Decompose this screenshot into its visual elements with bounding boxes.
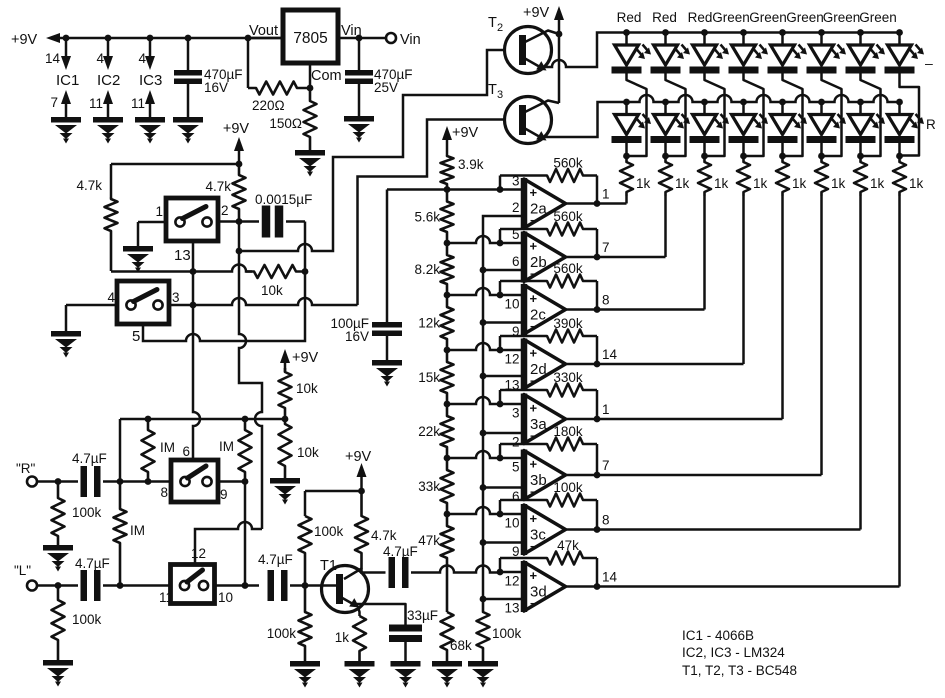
ground 1k T1	[345, 661, 375, 688]
svg-text:100k: 100k	[553, 480, 583, 495]
T3 emitter wire to LED rail 2	[545, 102, 627, 137]
svg-text:5.6k: 5.6k	[414, 209, 440, 224]
svg-text:4.7k: 4.7k	[371, 528, 397, 543]
LED row1 column 7 Green	[846, 33, 886, 74]
svg-text:4: 4	[96, 51, 104, 66]
op-amp 3d	[524, 561, 566, 612]
ground 100k L	[43, 660, 73, 687]
svg-text:100k: 100k	[267, 626, 297, 641]
svg-text:100k: 100k	[492, 626, 522, 641]
pin label 12 op-amp 2d	[504, 352, 519, 367]
resistor 1M left	[142, 419, 176, 482]
resistor 100k R input	[52, 482, 102, 546]
svg-text:+: +	[530, 511, 538, 526]
svg-text:+: +	[530, 185, 538, 200]
wire LED rail row 1	[623, 29, 903, 36]
svg-text:IM: IM	[219, 439, 234, 454]
wire ladder tap to op-amp 2b + input	[447, 236, 524, 246]
wire 10k feedback line	[111, 265, 252, 275]
wire pin12 control	[195, 522, 262, 565]
wire 7805 Vout to rail	[248, 37, 283, 40]
svg-text:−: −	[530, 429, 537, 443]
svg-text:33µF: 33µF	[407, 608, 438, 623]
resistor 1k column 6	[815, 156, 846, 196]
svg-text:6: 6	[512, 489, 520, 504]
svg-text:−: −	[530, 374, 537, 388]
wire output op-amp 2d pin 14	[566, 347, 744, 367]
node +9V ladder	[442, 125, 479, 155]
svg-text:2: 2	[497, 22, 503, 34]
ground 68k	[432, 661, 462, 688]
svg-text:13: 13	[504, 601, 519, 616]
svg-text:−: −	[530, 540, 537, 554]
T2 collector wire	[525, 31, 559, 43]
wire pin13 to pin6 control	[193, 241, 200, 460]
svg-text:7: 7	[602, 458, 610, 473]
resistor 100k bus	[477, 599, 522, 661]
svg-text:+: +	[530, 401, 538, 416]
wire ladder tap to op-amp 3c + input	[447, 507, 524, 517]
svg-text:12: 12	[504, 352, 519, 367]
wire output op-amp 3c pin 8	[566, 513, 861, 533]
wire output op-amp 2a pin 1	[566, 187, 627, 207]
LED row2 column 6	[807, 102, 847, 159]
feedback resistor 330k op-amp 3a	[500, 370, 597, 419]
svg-text:–: –	[925, 55, 933, 71]
op-amp 3b	[524, 450, 566, 501]
wire Vout branch	[247, 38, 250, 88]
wire output op-amp 2b pin 7	[566, 240, 666, 260]
wire pin3 line	[169, 298, 358, 308]
resistor 3.9k	[441, 155, 484, 190]
resistor 100k T1 upper bias	[299, 516, 344, 586]
svg-text:16V: 16V	[345, 329, 369, 344]
svg-text:4.7µF: 4.7µF	[258, 552, 293, 567]
resistor 8.2k ladder	[414, 243, 453, 295]
IC1 pin 14 supply arrow	[45, 38, 71, 70]
svg-text:IM: IM	[160, 440, 175, 455]
svg-text:100k: 100k	[72, 505, 102, 520]
svg-text:IC1 - 4066B: IC1 - 4066B	[682, 628, 754, 643]
label LED column 8 Green	[859, 10, 897, 25]
feedback resistor 390k op-amp 2d	[500, 316, 597, 364]
LED row2 column 7	[846, 102, 886, 159]
IC1 pin 7 ground arrow	[50, 90, 71, 117]
ground C1	[173, 117, 203, 144]
ground IC3	[135, 117, 165, 144]
svg-text:560k: 560k	[553, 209, 583, 224]
capacitor 4.7uF L input	[75, 556, 110, 601]
svg-text:8: 8	[602, 293, 610, 308]
op-amp 3c	[524, 504, 566, 555]
feedback resistor 100k op-amp 3c	[500, 480, 597, 530]
svg-text:2: 2	[512, 200, 520, 215]
pin label 10 op-amp 3c	[504, 516, 519, 531]
svg-text:10k: 10k	[261, 283, 283, 298]
wire 7805 Vin to terminal	[338, 35, 386, 42]
svg-text:3: 3	[512, 406, 520, 421]
wire ladder tap to op-amp 2d + input	[447, 343, 524, 353]
svg-text:33k: 33k	[418, 479, 440, 494]
wire LED row1 col3 cathode jog	[705, 74, 725, 157]
IC2 label	[97, 72, 120, 89]
svg-text:8: 8	[602, 513, 610, 528]
wire pin5 control line	[143, 272, 305, 341]
wire T1 collector to output cap	[362, 571, 386, 574]
LED row2 column 8	[885, 102, 925, 159]
capacitor C2 470uF 25V	[345, 38, 413, 116]
wire pin2 node	[218, 218, 259, 225]
svg-text:390k: 390k	[553, 316, 583, 331]
wire supply to 4.7k left	[111, 161, 242, 197]
wire ladder tap to op-amp 3b + input	[447, 451, 524, 461]
svg-text:4.7µF: 4.7µF	[383, 544, 418, 559]
wire LED row1 col7 cathode jog	[861, 74, 881, 157]
feedback resistor 47k op-amp 3d	[500, 538, 597, 587]
wire L cap to switch pin 11	[103, 582, 171, 589]
svg-text:5: 5	[512, 460, 520, 475]
svg-text:Red: Red	[617, 10, 642, 25]
LED row1 column 4 Green	[729, 33, 769, 74]
svg-text:100k: 100k	[72, 612, 102, 627]
wire pin9 to 1M right	[218, 478, 248, 485]
pin label 6 op-amp 3b	[512, 489, 520, 504]
capacitor 4.7uF R input	[72, 451, 107, 497]
resistor 1k column 4	[737, 156, 768, 196]
resistor 1k column 3	[698, 156, 729, 196]
svg-text:1k: 1k	[792, 176, 807, 191]
pin label 9 op-amp 2c	[512, 324, 520, 339]
svg-text:−: −	[530, 320, 537, 334]
wire column 4 to comparator output	[742, 196, 745, 364]
svg-text:1: 1	[602, 187, 610, 202]
T2 emitter wire to LED rail 1	[545, 33, 627, 68]
ground 10k bias	[270, 478, 300, 505]
svg-text:T: T	[488, 82, 497, 98]
svg-text:−: −	[530, 597, 537, 611]
svg-text:+: +	[530, 457, 538, 472]
svg-text:10: 10	[504, 516, 519, 531]
svg-text:4: 4	[107, 290, 115, 305]
wire pin4 to ground	[66, 305, 117, 331]
svg-text:13: 13	[174, 247, 191, 264]
label LED column 3 Red	[688, 10, 713, 25]
resistor 12k ladder	[418, 295, 453, 350]
wire pin3 node to T3 base	[358, 120, 505, 306]
svg-text:+9V: +9V	[523, 5, 550, 21]
svg-text:4.7k: 4.7k	[76, 178, 102, 193]
svg-text:Red: Red	[652, 10, 677, 25]
pin label 6 op-amp 2b	[512, 254, 520, 269]
wire LED row1 col4 cathode jog	[744, 74, 764, 157]
transistor T2	[488, 15, 552, 74]
regulator 7805	[249, 10, 362, 84]
ground 100k bus	[468, 661, 498, 688]
svg-text:+: +	[530, 346, 538, 361]
resistor 220R	[248, 82, 310, 114]
LED row1 column 8 Green	[885, 33, 925, 74]
wire signal line to op-amp 3d + input	[411, 566, 524, 576]
svg-text:IM: IM	[130, 523, 145, 538]
transistor T3	[488, 82, 552, 144]
wire L input line	[37, 582, 78, 589]
svg-text:560k: 560k	[553, 261, 583, 276]
svg-text:Green: Green	[786, 10, 824, 25]
resistor 4.7k left	[76, 178, 117, 271]
svg-text:1k: 1k	[714, 176, 729, 191]
wire column 7 to comparator output	[859, 196, 862, 530]
node +9V oscillator	[223, 121, 250, 164]
svg-text:+9V: +9V	[452, 125, 479, 141]
resistor 33k ladder	[418, 458, 453, 514]
svg-text:220Ω: 220Ω	[252, 98, 285, 113]
wire R cap to switch pin 8	[103, 478, 171, 485]
wire LED row1 col5 cathode jog	[783, 74, 803, 157]
svg-text:7: 7	[50, 95, 58, 110]
svg-text:Green: Green	[712, 10, 750, 25]
ground 100k T1	[290, 661, 320, 688]
pin label 13 op-amp 2d	[504, 378, 519, 393]
pin label 3 op-amp 2a	[512, 174, 520, 189]
wire comparator minus bus	[480, 216, 524, 602]
IC2 pin 4 supply arrow	[96, 38, 113, 70]
ground C2	[344, 116, 374, 143]
svg-text:4.7µF: 4.7µF	[72, 451, 107, 466]
wire output op-amp 3b pin 7	[566, 458, 822, 478]
LED row2 column 5	[768, 102, 808, 159]
svg-text:+9V: +9V	[223, 121, 250, 137]
label LED column 6 Green	[786, 10, 824, 25]
svg-text:3.9k: 3.9k	[458, 157, 484, 172]
pin label 5 op-amp 3b	[512, 460, 520, 475]
label minus right edge	[925, 55, 933, 71]
svg-text:25V: 25V	[374, 80, 398, 95]
svg-text:+: +	[530, 291, 538, 306]
ground IC2	[93, 117, 123, 144]
svg-text:0.0015µF: 0.0015µF	[255, 192, 312, 207]
wire 7805 Com	[307, 63, 314, 91]
switch IC1a pins 1 2 13	[155, 198, 228, 264]
resistor 1k column 5	[776, 156, 807, 196]
svg-text:Green: Green	[823, 10, 861, 25]
svg-text:100k: 100k	[314, 524, 344, 539]
resistor 1k column 1	[620, 156, 651, 196]
wire column 6 to comparator output	[820, 196, 823, 475]
wire oscillator control vertical	[236, 222, 262, 530]
resistor 1k column 2	[659, 156, 690, 196]
wire LED row1 col2 cathode jog	[666, 74, 686, 157]
svg-text:10: 10	[504, 297, 519, 312]
LED row2 column 1	[612, 102, 652, 159]
svg-text:47k: 47k	[557, 538, 579, 553]
capacitor 4.7uF L coupling	[258, 552, 293, 601]
svg-text:T: T	[488, 15, 497, 31]
node +9V bias divider	[280, 349, 319, 372]
svg-text:11: 11	[159, 590, 173, 605]
svg-text:"R": "R"	[16, 461, 36, 476]
svg-text:3: 3	[172, 290, 180, 305]
IC3 pin 4 supply arrow	[138, 38, 155, 70]
resistor 68k	[441, 612, 473, 661]
svg-text:4.7µF: 4.7µF	[75, 556, 110, 571]
svg-text:5: 5	[132, 328, 140, 345]
wire output op-amp 3a pin 1	[566, 402, 783, 422]
svg-text:Vin: Vin	[400, 32, 421, 48]
wire cap to T1 base	[290, 582, 337, 589]
wire +9V to T3 collector	[558, 34, 561, 103]
resistor 22k ladder	[418, 404, 453, 458]
pin label 2 op-amp 3a	[512, 435, 520, 450]
svg-text:180k: 180k	[553, 424, 583, 439]
svg-text:1k: 1k	[335, 630, 350, 645]
svg-text:11: 11	[89, 96, 103, 111]
svg-text:1k: 1k	[909, 176, 924, 191]
svg-text:4: 4	[138, 51, 146, 66]
switch IC1b pins 4 3 5	[107, 281, 179, 345]
resistor 150R	[269, 88, 316, 150]
wire R input line	[37, 478, 78, 485]
wire LED rail row 2	[623, 95, 903, 105]
svg-text:22k: 22k	[418, 424, 440, 439]
resistor 15k ladder	[418, 350, 453, 404]
resistor 4.7k oscillator	[205, 164, 245, 222]
resistor 1k T1	[335, 616, 366, 661]
wire column 5 to comparator output	[781, 196, 784, 419]
op-amp 2d	[524, 339, 566, 390]
note T1 T2 T3 BC548	[682, 663, 797, 678]
svg-text:IC1: IC1	[56, 72, 79, 89]
op-amp 2a	[524, 178, 566, 229]
T1 emitter arrow	[342, 598, 360, 608]
wire LED row1 col1 cathode jog	[627, 74, 647, 157]
svg-text:330k: 330k	[553, 370, 583, 385]
svg-text:1k: 1k	[675, 176, 690, 191]
pin label 10 op-amp 2c	[504, 297, 519, 312]
wire pin9 node down to L line	[242, 482, 249, 589]
resistor 100k L input	[52, 586, 102, 661]
svg-text:11: 11	[131, 96, 145, 111]
IC1 label	[56, 72, 79, 89]
svg-text:10: 10	[218, 590, 233, 605]
IC3 pin 11 ground arrow	[131, 90, 155, 117]
svg-text:8: 8	[160, 485, 168, 500]
LED row2 column 3	[690, 102, 730, 159]
wire output op-amp 2c pin 8	[566, 293, 705, 313]
svg-text:7805: 7805	[293, 30, 327, 47]
wire LED row1 col6 cathode jog	[822, 74, 842, 157]
svg-text:68k: 68k	[450, 638, 472, 653]
svg-text:"L": "L"	[14, 563, 31, 578]
svg-text:14: 14	[45, 51, 61, 66]
svg-text:1k: 1k	[636, 176, 651, 191]
capacitor 100uF 16V	[330, 190, 402, 361]
terminal Vin	[386, 32, 421, 48]
svg-text:IC2, IC3 - LM324: IC2, IC3 - LM324	[682, 645, 785, 660]
resistor 10k lower bias	[279, 419, 320, 478]
wire LED row1 col8 cathode jog	[900, 74, 920, 158]
svg-text:10k: 10k	[297, 445, 319, 460]
ground pin1	[123, 246, 153, 273]
feedback resistor 560k op-amp 2c	[500, 261, 597, 310]
note IC2 IC3 LM324	[682, 645, 785, 660]
svg-text:−: −	[530, 267, 537, 281]
transistor T1	[320, 558, 369, 613]
svg-text:Red: Red	[688, 10, 713, 25]
pin label 13 op-amp 3d	[504, 601, 519, 616]
svg-text:+9V: +9V	[345, 449, 372, 465]
wire T1 emitter	[358, 607, 360, 616]
junction dots ladder	[444, 186, 451, 517]
wire supply to 100k bias	[305, 491, 362, 516]
ground pin4	[51, 331, 81, 358]
capacitor 0.0015uF	[255, 192, 312, 238]
svg-text:+9V: +9V	[11, 32, 38, 48]
svg-text:+: +	[530, 568, 538, 583]
svg-text:IC2: IC2	[97, 72, 120, 89]
svg-text:Com: Com	[311, 68, 342, 84]
svg-text:16V: 16V	[204, 80, 228, 95]
junction dots on +9V rail	[63, 35, 252, 42]
svg-text:2: 2	[512, 435, 520, 450]
svg-text:12: 12	[504, 574, 519, 589]
svg-text:6: 6	[182, 444, 190, 459]
terminal R input	[16, 461, 37, 487]
resistor 4.7k T1 collector	[355, 491, 397, 568]
terminal L input	[14, 563, 37, 591]
svg-text:R: R	[926, 117, 936, 132]
wire oscillator to T2 base	[239, 50, 505, 251]
svg-text:IC3: IC3	[139, 72, 162, 89]
LED row2 column 4	[729, 102, 769, 159]
svg-text:1k: 1k	[753, 176, 768, 191]
ground IC1	[51, 117, 81, 144]
label LED column 7 Green	[823, 10, 861, 25]
resistor 10k oscillator	[246, 265, 308, 298]
op-amp 3a	[524, 394, 566, 445]
svg-text:150Ω: 150Ω	[269, 116, 302, 131]
op-amp 2c	[524, 284, 566, 335]
wire cap to vertical node	[286, 222, 305, 273]
node +9V T1 supply	[345, 449, 372, 494]
svg-text:+9V: +9V	[292, 350, 319, 366]
resistor 1k column 7	[854, 156, 885, 196]
svg-text:12: 12	[191, 546, 206, 561]
pin label 5 op-amp 2b	[512, 227, 520, 242]
IC3 label	[139, 72, 162, 89]
svg-text:Green: Green	[859, 10, 897, 25]
svg-text:14: 14	[602, 347, 618, 362]
wire output op-amp 3d pin 14	[566, 570, 900, 590]
wire ladder tap to op-amp 3a + input	[447, 397, 524, 407]
ground 100uF	[372, 360, 402, 387]
svg-text:Vout: Vout	[249, 23, 278, 39]
svg-text:1: 1	[155, 204, 163, 219]
wire 33uF to ground	[404, 642, 407, 661]
pin label 2 op-amp 2a	[512, 200, 520, 215]
pin label 3 op-amp 3a	[512, 406, 520, 421]
LED row1 column 1 Red	[612, 33, 652, 74]
switch IC1d pins 11 12 10	[159, 546, 233, 605]
svg-text:47k: 47k	[418, 533, 440, 548]
feedback resistor 560k op-amp 2b	[500, 209, 597, 257]
capacitor 33uF	[389, 608, 438, 642]
capacitor 4.7uF output	[383, 544, 418, 588]
wire pin1 to ground	[138, 222, 166, 246]
wire ladder tap to op-amp 2a + input	[387, 186, 524, 193]
wire R bias line	[120, 416, 288, 482]
LED row1 column 6 Green	[807, 33, 847, 74]
node +9V rail top-left	[11, 32, 283, 48]
